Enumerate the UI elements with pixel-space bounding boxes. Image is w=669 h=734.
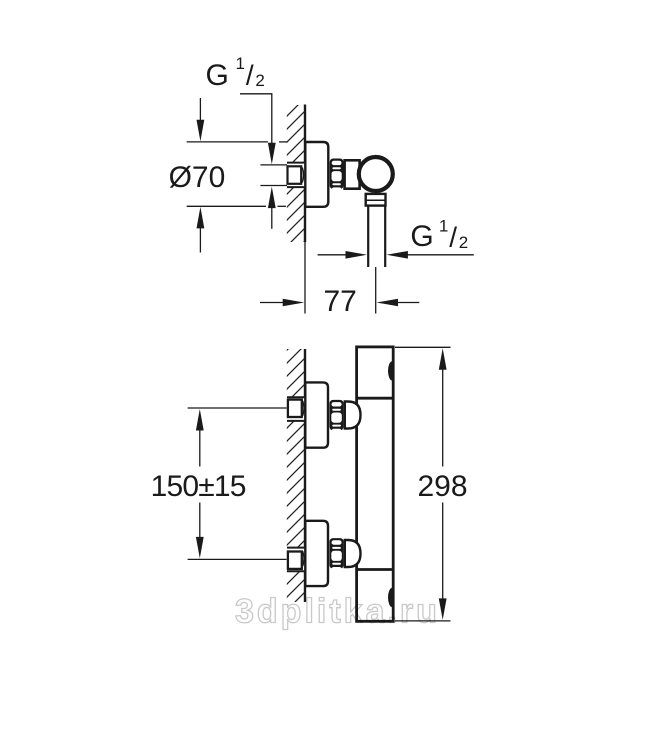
svg-text:77: 77 <box>324 285 357 318</box>
upper hex nut <box>330 400 344 433</box>
lower union dome <box>345 540 361 567</box>
wall pipe OD extension lines (G 1/2 thread) <box>260 164 287 166</box>
lower hex nut <box>330 538 344 571</box>
dim 150±15 bottom extension line <box>188 558 287 560</box>
wall face line (top view) <box>304 105 306 243</box>
wall face extension line (thin, for 77 dim) <box>304 242 306 314</box>
upper union dome <box>345 402 361 429</box>
label G 1/2 (right) <box>410 216 468 253</box>
thermostat bar body <box>357 347 394 621</box>
dim 77 right arrow <box>377 299 399 307</box>
wall face line (bottom view) <box>304 349 306 602</box>
upper escutcheon plate <box>305 382 328 447</box>
svg-text:2: 2 <box>255 71 264 90</box>
dim Ø70 bottom arrow (points up) <box>197 207 205 229</box>
svg-text:1: 1 <box>236 54 245 73</box>
label G 1/2 (top) <box>206 54 265 92</box>
wall hatching (bottom view) <box>287 349 304 602</box>
dim 298 top extension line <box>395 346 451 348</box>
svg-text:150±15: 150±15 <box>151 470 246 503</box>
dim 150±15 vertical line with outward arrows <box>196 409 204 431</box>
lower escutcheon plate <box>305 521 328 586</box>
dim Ø70 top extension line <box>187 141 268 143</box>
escutcheon plate (top view) <box>305 142 328 207</box>
pipe centerline extension (top view) <box>375 267 377 314</box>
valve body rectangle (top view) <box>345 160 360 188</box>
wall pipe OD up arrow <box>268 187 276 209</box>
upper side knob on bar (dark) <box>388 361 392 380</box>
hose pipe OD dim arrows (G 1/2 right) <box>318 254 346 256</box>
dim 298 bottom extension line <box>395 620 451 622</box>
svg-text:298: 298 <box>418 470 468 503</box>
svg-text:/: / <box>449 222 457 253</box>
pipe lines down from collar (top view) <box>367 206 369 267</box>
dim 298 vertical line with outward arrows <box>439 348 447 370</box>
bar bottom cap division line <box>357 568 394 571</box>
svg-text:Ø70: Ø70 <box>169 161 226 194</box>
pipe fitting in wall (top view) <box>286 163 305 188</box>
hex nut (top view) <box>330 159 344 192</box>
collar below circle (top view) <box>366 194 386 206</box>
leader line from G 1/2 (top) <box>240 94 272 145</box>
wall hatching (top view) <box>287 105 304 242</box>
lower pipe fitting in wall <box>286 548 305 572</box>
svg-text:G: G <box>410 220 433 253</box>
svg-text:1: 1 <box>439 216 448 235</box>
svg-text:G: G <box>206 59 229 92</box>
leader arrow (down) <box>268 143 276 165</box>
bar top cap division line <box>357 397 394 400</box>
dim 77 left arrow <box>260 302 283 304</box>
svg-text:2: 2 <box>459 233 468 252</box>
svg-text:3dplitka.ru: 3dplitka.ru <box>235 593 440 631</box>
upper pipe fitting in wall <box>286 397 305 421</box>
dim Ø70 top arrow (points down) <box>199 98 201 123</box>
lower side knob on bar (dark) <box>388 588 392 607</box>
dim Ø70 bottom extension line <box>187 205 266 207</box>
svg-text:/: / <box>246 60 254 91</box>
valve circle (top view) <box>359 157 393 191</box>
dim 150±15 top extension line <box>188 407 287 409</box>
